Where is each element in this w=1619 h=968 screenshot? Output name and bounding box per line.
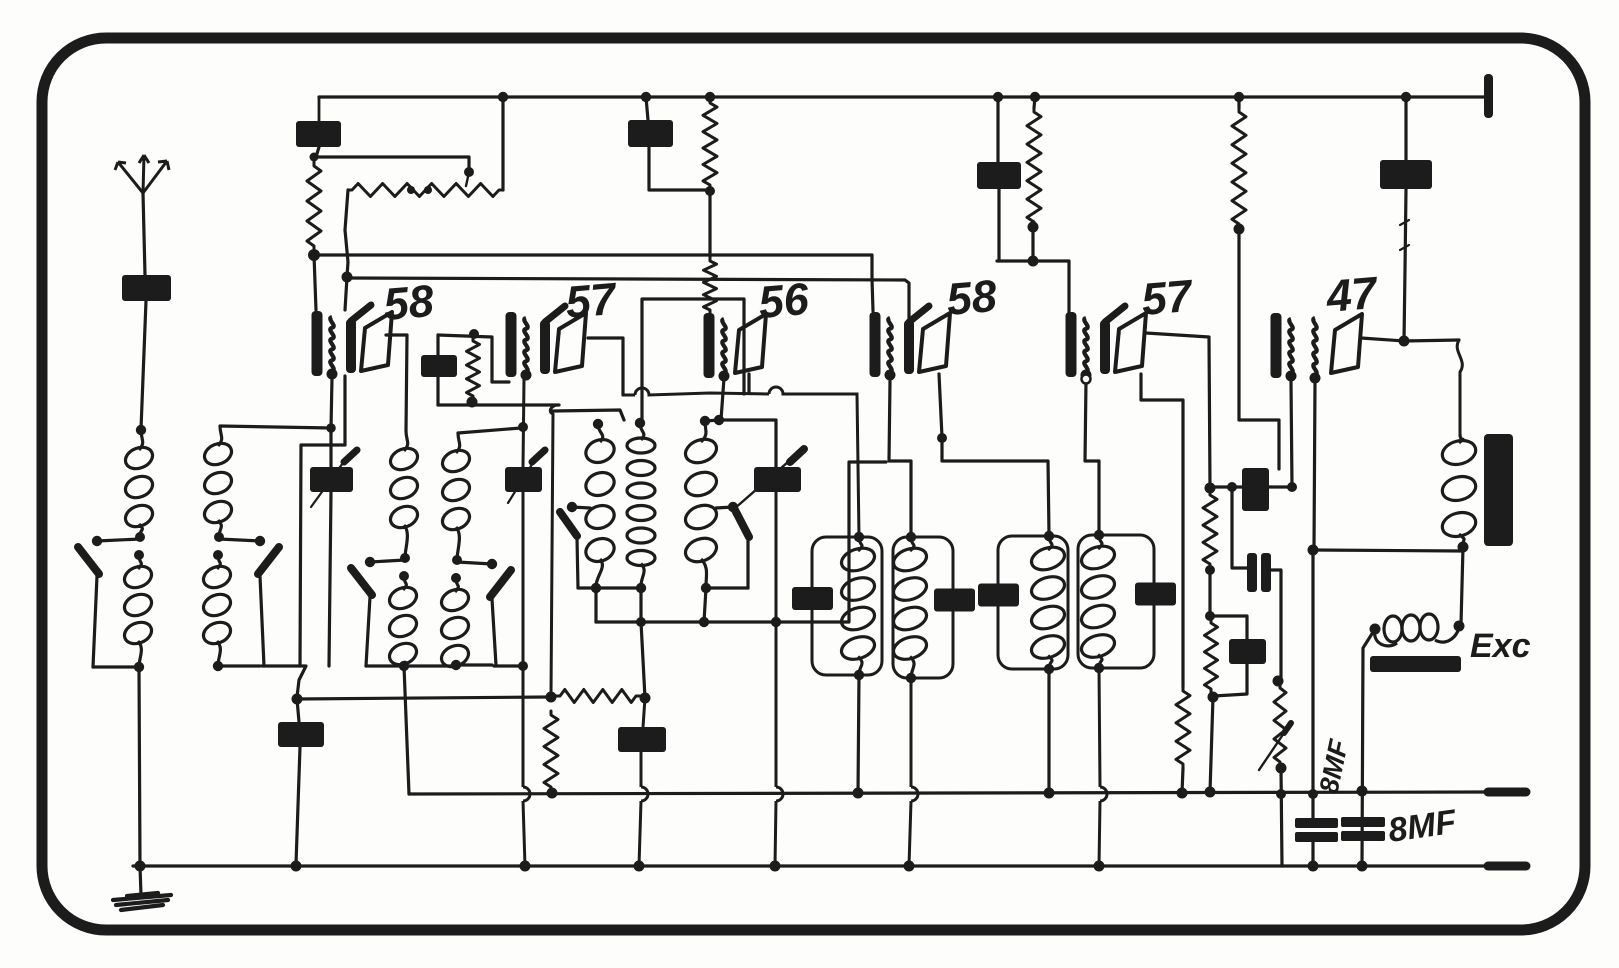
- grid cap stroke (57): [1105, 306, 1125, 322]
- tank coil (T3): [1029, 536, 1068, 669]
- IF transformer primary bar (56): [704, 313, 715, 378]
- capacitor C13: [618, 727, 666, 752]
- wire C2 drop: [646, 97, 648, 120]
- wire antenna lead: [143, 193, 145, 275]
- wire osc switch rail L: [577, 538, 578, 588]
- wire upper return bus main: [409, 792, 1489, 794]
- junction tank bottom (T3): [1044, 664, 1054, 674]
- coil lower (B4): [438, 578, 471, 671]
- junction coilB bottom: [636, 583, 646, 593]
- junction 47 plate: [1399, 336, 1410, 347]
- heater winding (58): [330, 317, 333, 371]
- junction upper bus R12: [547, 788, 557, 798]
- junction B4 tap: [518, 422, 528, 432]
- wire V3 plate: [747, 374, 750, 393]
- grid bar (58): [346, 319, 356, 373]
- trimmer arrow CT1: [344, 450, 357, 462]
- wire B3B4 bottom join: [494, 664, 523, 667]
- wire OT bottom to EXC: [1461, 547, 1463, 624]
- junction R9 middle: [1205, 565, 1215, 575]
- resistor R7 grid leak: [467, 337, 480, 400]
- junction upper bus R8: [1177, 788, 1188, 799]
- junction tank bottom (T2): [906, 673, 916, 683]
- wire R5 to node: [1031, 227, 1034, 261]
- resistor R8: [1176, 687, 1190, 768]
- wire B1 to ground rail: [139, 667, 140, 866]
- junction R10 bottom: [1208, 692, 1219, 703]
- wire grid box left: [436, 335, 439, 355]
- wire R5 top: [1034, 97, 1035, 108]
- capacitor C10 8MF plate2: [1341, 831, 1385, 841]
- grid cap stroke (58): [909, 306, 929, 322]
- junction trimmer rail y622: [771, 617, 781, 627]
- oscillator coil LC: [682, 421, 720, 586]
- trimmer capacitor CT3: [754, 467, 801, 492]
- resistor R2 potentiometer: [348, 184, 503, 197]
- junction on top bus: [1401, 92, 1411, 102]
- wire output return line: [1313, 550, 1463, 551]
- junction coil mid2 (B3): [399, 571, 409, 581]
- junction on top bus: [1030, 92, 1040, 102]
- arrow head R11: [1284, 723, 1291, 733]
- wire grid network y487: [1210, 485, 1242, 488]
- wire decoupling node: [997, 261, 1069, 314]
- wire C7 right down: [1271, 570, 1281, 678]
- terminal upper bus: [1488, 788, 1526, 797]
- wire trimmer rail: [775, 492, 776, 866]
- IF transformer primary bar (58): [870, 312, 881, 377]
- wire C6 right link: [1269, 485, 1293, 488]
- arrow shaft R11: [1259, 733, 1284, 770]
- wire plate line y395: [623, 387, 859, 537]
- wire C3 to node: [997, 189, 1000, 261]
- heater winding (47): [1289, 319, 1292, 373]
- junction switch (B3): [365, 557, 375, 567]
- wire B2 top link: [220, 426, 331, 428]
- wire C12 to lower bus: [296, 747, 300, 864]
- wire osc switch rail R: [746, 539, 749, 588]
- tube envelope (56): [735, 314, 766, 373]
- junction osc switch R: [728, 502, 738, 512]
- wire tank2 to lower bus: [909, 678, 911, 866]
- grid cap stroke (57): [545, 306, 565, 322]
- tick on wire: [1400, 220, 1409, 225]
- resistor R3: [703, 99, 717, 189]
- tube envelope (58): [919, 313, 950, 372]
- antenna symbol: [115, 155, 169, 193]
- grid bar (57): [540, 320, 550, 374]
- wire bias bus 1: [314, 255, 872, 279]
- grid cap stroke (58): [351, 305, 371, 321]
- wire coilC drop: [704, 588, 706, 622]
- wire AVC rail C12: [297, 699, 299, 722]
- capacitor C2: [628, 120, 673, 147]
- wire 8mf rail: [1311, 550, 1314, 818]
- wire upper return bus: [404, 666, 409, 794]
- junction coil bottom (B1): [134, 662, 144, 672]
- tank2 bus hop: [911, 787, 918, 801]
- wire wiper contact: [466, 172, 469, 186]
- wire V1 cathode rail: [331, 378, 332, 467]
- wire V3 cathode: [721, 378, 724, 420]
- wire osc switch link L: [572, 507, 590, 508]
- junction coilC top2: [714, 415, 724, 425]
- wire R3 node down: [708, 191, 711, 257]
- output transformer primary L9: [1440, 434, 1479, 546]
- junction tank bottom (T1): [854, 670, 864, 680]
- junction antenna coil top: [136, 425, 146, 435]
- band switch (B3): [351, 568, 372, 595]
- wire switch link (B3): [370, 560, 405, 562]
- junction y622 left: [636, 617, 646, 627]
- junction EXC left: [1370, 624, 1381, 635]
- wire cathode return y622: [596, 462, 886, 622]
- junction grid box top: [469, 329, 479, 339]
- junction switch (B2): [255, 536, 265, 546]
- junction coil mid (B1): [135, 532, 145, 542]
- junction R9 top: [1205, 483, 1216, 494]
- IF transformer primary bar (58): [312, 311, 323, 376]
- wire tank1 to upper bus: [858, 675, 859, 793]
- output transformer core bar: [1484, 434, 1513, 546]
- wire IF1 secondary return: [300, 376, 345, 666]
- wire block bottom rail (B3): [366, 664, 404, 667]
- field core bar EXC: [1370, 656, 1461, 672]
- terminal top right: [1484, 74, 1493, 118]
- junction upper bus R11: [1276, 789, 1286, 799]
- junction osc coilA top: [593, 419, 603, 429]
- wire osc bottom rail: [578, 586, 641, 589]
- junction coilC bottom: [701, 583, 711, 593]
- tank coil (T4): [1079, 535, 1118, 668]
- wire R8 to bus: [1182, 768, 1183, 793]
- wire coilA drop: [594, 588, 597, 622]
- coil lower (B1): [121, 555, 154, 667]
- trimmer shaft CT1: [311, 456, 348, 507]
- wire potentiometer wiper arm: [314, 157, 469, 172]
- junction R5 bottom: [1028, 222, 1039, 233]
- svg-text:57: 57: [563, 273, 619, 328]
- band switch S5: [560, 512, 577, 536]
- wire C8 bypass box: [1210, 616, 1247, 696]
- tank circuit box (T2): [893, 537, 953, 678]
- heater winding (57): [1084, 318, 1087, 372]
- wire pot right leg to top bus: [501, 97, 504, 190]
- tank4 bus hop: [1100, 787, 1107, 801]
- IF transformer primary bar (57): [506, 312, 517, 377]
- wire oscC bottom rail: [706, 586, 748, 589]
- wire ground stub: [140, 866, 141, 895]
- tick on wire: [1400, 245, 1409, 250]
- capacitor C7 plate B: [1261, 553, 1271, 592]
- capacitor C5 grid: [421, 355, 457, 377]
- wire grid rail x523: [523, 379, 525, 866]
- junction EXC rail upper bus: [1357, 786, 1368, 797]
- wire plate loop to OT: [1457, 340, 1462, 434]
- capacitor C9 8MF plate: [1295, 818, 1338, 828]
- junction on top bus: [498, 92, 508, 102]
- junction upper bus R10: [1205, 787, 1216, 798]
- wire coilC top link: [705, 420, 719, 421]
- junction osc switch L: [567, 502, 577, 512]
- svg-text:56: 56: [756, 273, 811, 328]
- tank coil (T1): [839, 537, 878, 675]
- junction OT bottom: [1458, 542, 1469, 553]
- resistor R10: [1205, 619, 1218, 693]
- junction R13 right: [640, 693, 651, 704]
- trimmer shaft CT3: [734, 455, 796, 509]
- grid rail hop: [523, 787, 530, 801]
- junction tank1 bus: [853, 788, 864, 799]
- field coil EXC L10: [1375, 614, 1459, 646]
- junction C9 lower: [1308, 861, 1319, 872]
- junction R12 bus: [547, 788, 558, 799]
- resistor R4: [704, 257, 717, 314]
- wire C13 rail: [639, 698, 645, 866]
- svg-text:58: 58: [381, 275, 435, 330]
- wire switch link (B2): [219, 539, 260, 541]
- wire V5 screen drop: [1141, 374, 1183, 687]
- heater winding (57): [524, 318, 527, 372]
- wire V4 plate to tank3: [939, 374, 1049, 534]
- wire switch rail (B4): [492, 599, 496, 665]
- junction tank bottom (T4): [1094, 663, 1104, 673]
- band switch (B1): [78, 547, 99, 574]
- capacitor C1: [296, 121, 341, 147]
- svg-text:58: 58: [944, 270, 998, 325]
- wire C3 drop: [996, 97, 999, 162]
- wire C1 to node: [316, 147, 319, 157]
- wire B2 bottom ext: [262, 666, 306, 697]
- junction rail y666: [518, 661, 528, 671]
- capacitor C11 antenna: [122, 275, 171, 301]
- wire V1 plate: [386, 335, 407, 431]
- junction coil mid2 (B2): [213, 550, 223, 560]
- junction R3 bottom: [705, 186, 715, 196]
- wire C4 to plate line: [1404, 189, 1406, 341]
- wire R6 down to C6: [1239, 229, 1279, 469]
- junction EXC right: [1454, 621, 1465, 632]
- wire stub to IF4 primary: [872, 279, 873, 311]
- junction coil bottom (B4): [451, 660, 461, 670]
- capacitor C8: [1229, 639, 1266, 664]
- junction coilA bottom: [591, 583, 601, 593]
- capacitor C10 8MF plate: [1341, 817, 1385, 827]
- wire C14 drop: [1404, 97, 1407, 160]
- wire y622 to R13 node: [641, 622, 645, 698]
- wire grid to trimmer: [719, 420, 776, 467]
- junction decoupling node: [1028, 256, 1039, 267]
- svg-text:8MF: 8MF: [1386, 803, 1460, 850]
- junction tank3 bus: [1044, 788, 1055, 799]
- junction on top bus: [1234, 92, 1244, 102]
- wire osc feedback box: [642, 299, 744, 420]
- junction coil bottom (B2): [213, 661, 223, 671]
- tank circuit box (T4): [1078, 535, 1154, 668]
- tube envelope (57): [1115, 313, 1146, 372]
- wire AVC line: [297, 697, 549, 699]
- junction AVC mid: [546, 692, 557, 703]
- C13 rail hop: [641, 787, 648, 801]
- capacitor C6: [1242, 468, 1269, 511]
- node below C1: [310, 153, 319, 162]
- junction wiper: [464, 167, 474, 177]
- wire R11 to buses: [1281, 768, 1282, 866]
- heater winding (58): [888, 318, 891, 372]
- svg-text:57: 57: [1139, 270, 1195, 325]
- junction coil mid (B2): [214, 532, 224, 542]
- junction tank top (T1): [854, 532, 864, 542]
- junction coilC top: [700, 416, 710, 426]
- junction on top bus: [993, 92, 1003, 102]
- wire switch rail (B3): [366, 597, 370, 666]
- wire R13 link: [549, 696, 556, 697]
- coil upper (B3): [387, 431, 420, 558]
- wire V2 plate: [588, 338, 623, 395]
- coil upper (B1): [122, 430, 155, 537]
- resistor R9: [1203, 491, 1217, 568]
- trimmer capacitor CT2: [505, 467, 542, 492]
- wire pot leg to IF1 secondary: [345, 277, 347, 310]
- wire top bus left drop to C1: [318, 97, 321, 123]
- wire below C5: [436, 377, 439, 405]
- coil upper (B2): [201, 426, 234, 537]
- wire C6 to C7: [1232, 487, 1249, 568]
- junction tank2 lower bus: [904, 861, 915, 872]
- junction coil mid (B3): [400, 553, 410, 563]
- tank capacitor (T4): [1135, 583, 1176, 606]
- junction R10 top: [1205, 611, 1215, 621]
- wire grid box top: [438, 335, 509, 382]
- junction C6 right: [1287, 482, 1297, 492]
- wire switch rail (B1): [93, 576, 97, 667]
- junction C6 left: [1227, 482, 1237, 492]
- svg-text:47: 47: [1323, 267, 1380, 322]
- junction osc coilB top: [635, 418, 645, 428]
- wire below CT1: [329, 492, 331, 666]
- junction ground rail: [135, 861, 146, 872]
- svg-text:8MF: 8MF: [1314, 736, 1355, 797]
- cathode circle V5: [1082, 375, 1091, 384]
- wire 47 cathode 2: [1314, 382, 1315, 548]
- junction V4 plate: [937, 433, 947, 443]
- heater winding 2 (47): [1313, 318, 1316, 375]
- grid bar (57): [1100, 320, 1110, 374]
- junction switch (B4): [487, 559, 497, 569]
- wire C2 to node: [649, 147, 706, 190]
- resistor R5: [1027, 108, 1041, 226]
- junction tank top (T2): [906, 532, 916, 542]
- coil lower (B3): [386, 576, 419, 669]
- junction EXC rail lower bus: [1357, 861, 1368, 872]
- wire C9 to lower bus: [1311, 842, 1314, 866]
- wire pot left leg: [345, 190, 348, 276]
- tank capacitor (T2): [934, 589, 975, 612]
- wire 47 plate line: [1361, 338, 1459, 341]
- coil upper (B4): [439, 433, 472, 560]
- coil lower (B2): [200, 555, 233, 666]
- wire switch link (B4): [457, 562, 492, 564]
- wire R10 to bus: [1210, 697, 1213, 792]
- resistor R13: [556, 690, 640, 703]
- junction R6 bottom: [1234, 224, 1245, 235]
- trimmer rail hop: [776, 787, 783, 801]
- junction switch (B1): [92, 536, 102, 546]
- wire R9 link: [1208, 570, 1211, 614]
- wire cathode line y405: [438, 403, 559, 406]
- IF transformer primary bar (47): [1271, 313, 1282, 378]
- junction coil mid2 (B4): [451, 573, 461, 583]
- junction coil bottom (B3): [399, 661, 409, 671]
- band switch (B4): [490, 570, 511, 597]
- junction R11 top: [1273, 676, 1284, 687]
- junction tank top (T4): [1094, 530, 1104, 540]
- junction bus1 left end: [308, 249, 320, 261]
- wire tank4 to lower bus: [1099, 668, 1100, 866]
- pot body blob: [424, 186, 432, 194]
- wire osc rail x553: [550, 405, 556, 695]
- wire B3B4 bottom mid: [404, 664, 458, 667]
- tube envelope (57): [555, 313, 586, 372]
- junction coil mid (B4): [452, 555, 462, 565]
- tank capacitor (T3): [978, 584, 1019, 607]
- capacitor C4: [1380, 160, 1432, 189]
- junction block2 top tap: [326, 423, 336, 433]
- grid bar (58): [904, 320, 914, 374]
- capacitor C9 8MF plate2: [1295, 832, 1338, 842]
- resistor R11 variable: [1274, 684, 1286, 766]
- oscillator coil LA: [583, 424, 618, 586]
- svg-text:Exc: Exc: [1470, 627, 1531, 665]
- band switch S6: [735, 510, 749, 537]
- wire block bottom rail (B1): [93, 665, 139, 668]
- wire V5 cathode to tank4: [1085, 381, 1099, 535]
- wire bias bus 2: [347, 278, 909, 318]
- junction on top bus: [641, 92, 651, 102]
- wire lower ground bus: [133, 864, 1489, 867]
- junction R7 bottom: [467, 397, 478, 408]
- tube envelope (58): [361, 312, 392, 371]
- wire B4 top link: [458, 428, 521, 433]
- capacitor C12: [278, 722, 324, 747]
- junction rail upper bus: [1308, 789, 1318, 799]
- trimmer capacitor CT1: [310, 467, 353, 492]
- wire R6 top: [1237, 97, 1240, 108]
- wire osc coil feed: [553, 410, 624, 420]
- trimmer arrow CT2: [532, 450, 545, 462]
- junction rail lower bus: [520, 861, 531, 872]
- band switch (B2): [258, 547, 279, 574]
- resistor R12: [544, 711, 558, 791]
- junction y622 coilC: [699, 617, 709, 627]
- junction tank top (T3): [1044, 531, 1054, 541]
- pot body blob: [407, 186, 415, 194]
- wire 47 cathode 1: [1291, 382, 1292, 487]
- junction trimmer rail lower bus: [770, 861, 781, 872]
- wire tank3 to upper bus: [1047, 669, 1050, 793]
- capacitor C3: [977, 162, 1021, 189]
- wire R1 to IF1 primary: [314, 255, 316, 310]
- wire block bottom rail (B2): [218, 664, 260, 667]
- junction AVC left: [292, 694, 303, 705]
- terminal lower bus: [1488, 862, 1526, 871]
- wire block bottom rail (B4): [456, 663, 492, 666]
- wire EXC left rail: [1362, 629, 1375, 866]
- tank circuit box (T1): [812, 537, 882, 675]
- wire osc switch link R: [716, 507, 733, 508]
- wire V5 plate: [1146, 333, 1210, 487]
- junction bus2 left end: [342, 272, 353, 283]
